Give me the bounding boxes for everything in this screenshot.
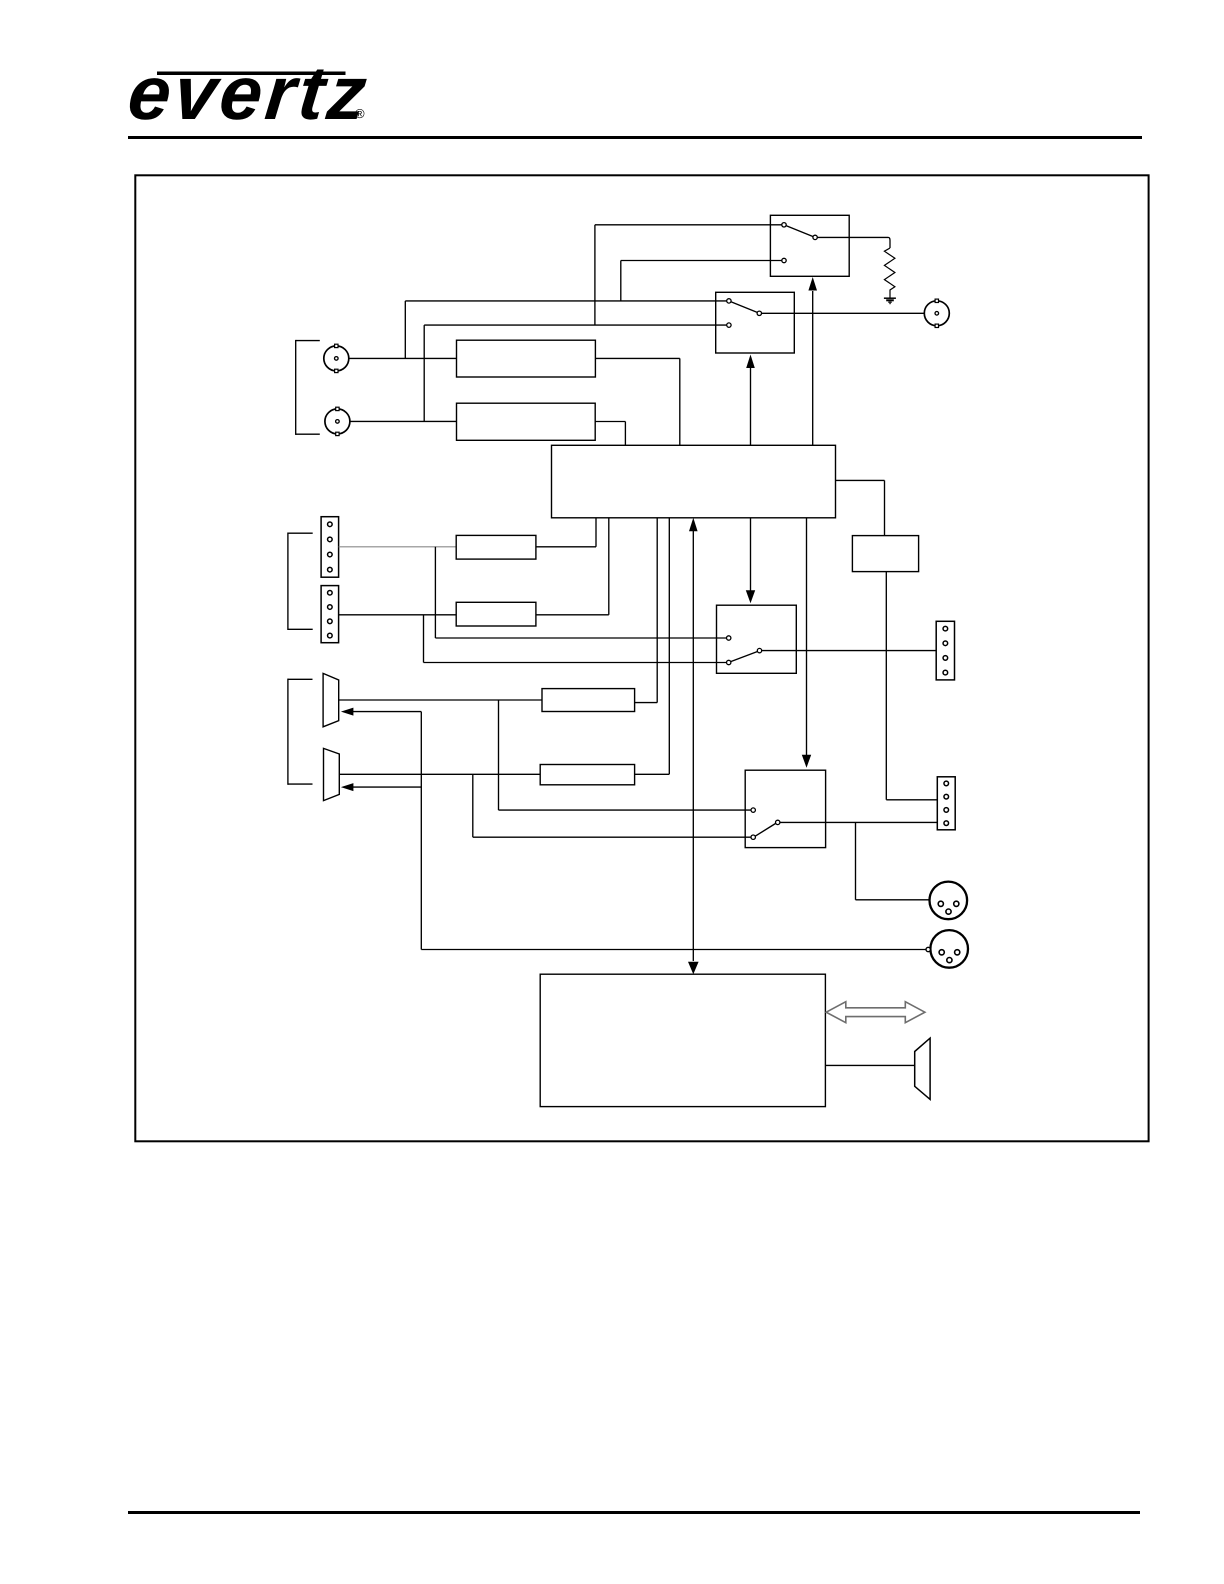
- svg-text:evertz: evertz: [124, 51, 374, 136]
- svg-text:®: ®: [355, 106, 365, 121]
